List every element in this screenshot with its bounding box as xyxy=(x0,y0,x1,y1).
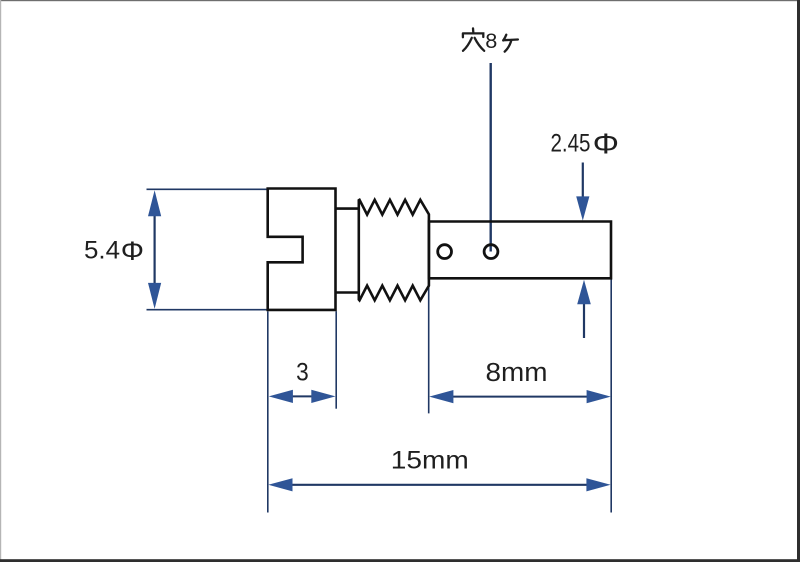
photo frame borders xyxy=(0,0,800,1)
svg-text:8mm: 8mm xyxy=(486,359,548,387)
screw head with slot xyxy=(268,189,336,310)
dimension extension line 5.4 bottom xyxy=(147,309,268,311)
arrowhead 3 left xyxy=(269,390,293,403)
arrowhead 8mm right xyxy=(587,390,611,403)
arrowhead 5.4 down xyxy=(148,283,161,309)
2.45 top arrow tail xyxy=(582,163,584,199)
leader line from hole label to hole 2 xyxy=(490,63,492,252)
dimension line 15mm shaft xyxy=(290,484,588,486)
arrowhead 15mm left xyxy=(268,478,292,491)
arrowhead 15mm right xyxy=(586,478,610,491)
hole 1 xyxy=(438,245,452,259)
svg-text:15mm: 15mm xyxy=(391,447,469,474)
dimension extension line 5.4 top xyxy=(147,188,268,190)
kanji 穴 left leg xyxy=(463,38,472,51)
svg-text:2.45: 2.45 xyxy=(551,129,591,157)
extension line vertical shaft-right (8mm/15mm shared) xyxy=(610,279,612,513)
thread profile xyxy=(359,200,429,300)
katakana ヶ stroke 2 xyxy=(503,38,518,41)
svg-text:8: 8 xyxy=(485,28,497,53)
extension line vertical head-left (3 and 15mm shared) xyxy=(267,311,269,512)
arrowhead 5.4 up xyxy=(148,190,161,216)
2.45 bottom arrow tail xyxy=(583,303,585,338)
dimension extension line vertical (8mm left, under part) xyxy=(428,280,430,413)
arrowhead 2.45 up (to shaft bottom) xyxy=(577,280,591,304)
dimension line 8mm shaft xyxy=(451,396,589,398)
extension line vertical head-right (3) xyxy=(335,311,337,409)
kanji 穴 right leg xyxy=(475,38,485,51)
svg-text:Φ: Φ xyxy=(121,236,144,265)
kanji 穴 dot xyxy=(472,28,475,32)
svg-text:Φ: Φ xyxy=(593,128,619,160)
katakana ヶ stroke 3 xyxy=(505,40,512,52)
svg-text:5.4: 5.4 xyxy=(84,237,120,265)
dimension line 3 shaft xyxy=(290,395,314,397)
arrowhead 8mm left xyxy=(429,390,453,403)
svg-text:3: 3 xyxy=(296,359,309,387)
part outline xyxy=(268,189,611,310)
shaft body xyxy=(429,222,611,279)
katakana ヶ stroke 1 xyxy=(503,35,506,41)
arrowhead 3 right xyxy=(311,390,335,403)
kanji 穴 roof xyxy=(463,33,483,37)
hole 2 xyxy=(484,245,498,259)
collar top line xyxy=(336,207,359,210)
label 穴8ヶ : kanji ana drawn as strokes xyxy=(463,28,518,51)
collar bottom line xyxy=(336,291,359,294)
dimension line 5.4 vertical shaft xyxy=(154,213,156,286)
arrowhead 2.45 down (to shaft top) xyxy=(576,196,589,220)
